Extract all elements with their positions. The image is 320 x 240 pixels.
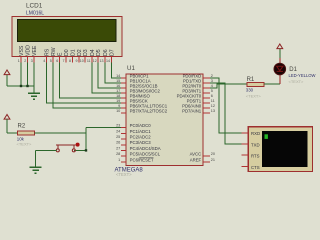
svg-text:28: 28 — [116, 152, 120, 156]
svg-text:VSS: VSS — [19, 45, 25, 56]
virtual terminal body — [248, 127, 312, 172]
wire power rail horizontal — [7, 85, 34, 87]
svg-text:21: 21 — [211, 158, 215, 162]
wire R1 to LED — [264, 83, 280, 85]
svg-text:U1: U1 — [127, 65, 135, 72]
svg-text:9: 9 — [76, 59, 78, 63]
svg-text:D1: D1 — [70, 49, 76, 56]
MCU pin 21 AREF (right) — [203, 161, 210, 163]
svg-text:PC4/ADC4/SDA: PC4/ADC4/SDA — [130, 146, 161, 151]
terminal pin CTS — [242, 165, 249, 167]
svg-text:12: 12 — [211, 104, 215, 108]
svg-text:1: 1 — [18, 59, 20, 63]
wire D4 to PB3 pin17 — [92, 63, 121, 94]
MCU pin 12 PD6/AIN0 (right) — [203, 107, 210, 109]
svg-text:6: 6 — [211, 94, 213, 98]
MCU pin 14 PB0/ICP1 (left) — [121, 77, 126, 79]
wire PD0 to terminal RXD — [210, 78, 242, 133]
power terminal above LED — [277, 44, 283, 49]
svg-text:6: 6 — [56, 59, 58, 63]
MCU pin 24 PC1/ADC1 (left) — [121, 132, 126, 134]
MCU pin 19 PB5/SCK (left) — [121, 102, 126, 104]
svg-text:VDD: VDD — [26, 45, 32, 56]
LED D1 — [279, 58, 281, 84]
svg-text:3: 3 — [31, 59, 33, 63]
svg-text:25: 25 — [116, 135, 120, 139]
svg-text:9: 9 — [118, 104, 120, 108]
junction at VSS — [20, 85, 22, 87]
svg-text:4: 4 — [211, 84, 213, 88]
svg-text:PC0/ADC0: PC0/ADC0 — [130, 123, 152, 128]
MCU pin 15 PB1/OC1A (left) — [121, 82, 126, 84]
MCU pin 18 PB4/MISO (left) — [121, 97, 126, 99]
svg-text:15: 15 — [116, 79, 120, 83]
MCU pin 4 PD2/INT0 (right) — [203, 87, 210, 89]
svg-text:RXD: RXD — [251, 131, 260, 136]
svg-text:RTS: RTS — [251, 154, 260, 159]
wire D7 to PB0 pin14 — [111, 63, 121, 79]
svg-text:TXD: TXD — [251, 142, 260, 147]
svg-text:11: 11 — [211, 99, 215, 103]
svg-text:<TEXT>: <TEXT> — [289, 79, 305, 84]
svg-text:330: 330 — [246, 88, 254, 93]
MCU pin 9 PB6/XTAL1/TOSC1 (left) — [121, 107, 126, 109]
wire vertical button net — [85, 128, 87, 151]
svg-text:PC6/RESET: PC6/RESET — [130, 157, 154, 162]
power terminal near LCD — [4, 70, 10, 75]
svg-text:RW: RW — [51, 47, 57, 56]
LCD screen — [17, 19, 116, 41]
svg-text:LED-YELLOW: LED-YELLOW — [289, 73, 316, 78]
wire to ground — [33, 86, 35, 93]
MCU pin 3 PD1/TXD (right) — [203, 82, 210, 84]
svg-text:10k: 10k — [17, 136, 25, 141]
svg-text:E: E — [58, 52, 64, 56]
svg-text:20: 20 — [211, 152, 215, 156]
resistor R2 body — [18, 131, 35, 135]
svg-text:10: 10 — [116, 109, 120, 113]
svg-text:RS: RS — [45, 48, 51, 56]
svg-text:PC2/ADC2: PC2/ADC2 — [130, 135, 152, 140]
MCU pin 27 PC4/ADC4/SDA (left) — [121, 150, 126, 152]
MCU pin 25 PC2/ADC2 (left) — [121, 138, 126, 140]
svg-text:R2: R2 — [18, 123, 26, 129]
svg-text:26: 26 — [116, 141, 120, 145]
svg-text:13: 13 — [211, 109, 215, 113]
wire VEE down — [33, 63, 35, 87]
MCU pin 17 PB3/MOSI/OC2 (left) — [121, 92, 126, 94]
svg-text:7: 7 — [63, 59, 65, 63]
svg-text:2: 2 — [24, 59, 26, 63]
svg-text:19: 19 — [116, 99, 120, 103]
svg-text:5: 5 — [211, 89, 213, 93]
svg-text:10: 10 — [80, 59, 84, 63]
terminal pin RTS — [242, 154, 249, 156]
svg-text:CTS: CTS — [251, 165, 260, 170]
junction button net — [85, 149, 87, 151]
svg-text:D4: D4 — [90, 49, 96, 56]
wire D5 to PB2 pin16 — [98, 63, 121, 89]
svg-text:3: 3 — [211, 79, 213, 83]
wire VSS down — [20, 63, 22, 87]
ground below LCD — [28, 92, 40, 94]
svg-text:D1: D1 — [289, 67, 297, 73]
svg-text:11: 11 — [87, 59, 91, 63]
svg-text:<TEXT>: <TEXT> — [116, 172, 132, 177]
svg-text:AREF: AREF — [190, 157, 202, 162]
svg-text:1: 1 — [118, 158, 120, 162]
wire button left to ground — [36, 149, 57, 151]
push button — [56, 144, 76, 146]
wire button to net — [74, 149, 86, 151]
MCU pin 16 PB2/SS/OC1B (left) — [121, 87, 126, 89]
MCU pin 5 PD3/INT1 (right) — [203, 92, 210, 94]
svg-text:D6: D6 — [103, 49, 109, 56]
svg-text:23: 23 — [116, 124, 120, 128]
wire to R2 left — [7, 132, 18, 134]
svg-text:16: 16 — [116, 84, 120, 88]
MCU pin 23 PC0/ADC0 (left) — [121, 127, 126, 129]
MCU pin 1 PC6/RESET (left) — [121, 161, 126, 163]
svg-text:PC3/ADC3: PC3/ADC3 — [130, 140, 152, 145]
svg-text:AVCC: AVCC — [190, 152, 202, 157]
svg-text:2: 2 — [211, 74, 213, 78]
MCU pin 10 PB7/XTAL2/TOSC2 (left) — [121, 112, 126, 114]
power terminal near R2 — [4, 115, 10, 120]
ground below button — [30, 166, 42, 168]
svg-text:LM016L: LM016L — [26, 10, 44, 16]
svg-text:PC1/ADC1: PC1/ADC1 — [130, 129, 152, 134]
svg-text:14: 14 — [116, 74, 120, 78]
svg-text:17: 17 — [116, 89, 120, 93]
terminal pin TXD — [242, 143, 249, 145]
wire power arrow stem — [6, 75, 8, 86]
MCU U1 body — [126, 74, 203, 166]
svg-text:D5: D5 — [96, 49, 102, 56]
junction at VDD — [26, 85, 28, 87]
wire to MCU PC0 pin 23 — [86, 127, 121, 129]
svg-text:PB7/XTAL2/TOSC2: PB7/XTAL2/TOSC2 — [130, 109, 168, 114]
wire VDD down — [27, 63, 29, 87]
wire R2 right to net — [34, 132, 86, 134]
svg-text:LCD1: LCD1 — [26, 3, 43, 10]
wire PD1 to terminal TXD — [210, 83, 242, 144]
svg-text:24: 24 — [116, 129, 120, 133]
svg-text:D7: D7 — [109, 49, 115, 56]
svg-text:PD7/AIN1: PD7/AIN1 — [182, 109, 202, 114]
svg-text:<TEXT>: <TEXT> — [246, 93, 262, 98]
wire RW to PB6 pin9 — [53, 63, 121, 109]
wire D6 to PB1 pin15 — [105, 63, 121, 84]
svg-text:8: 8 — [69, 59, 71, 63]
wire PD2 to R1 — [210, 84, 247, 88]
MCU pin 28 PC5/ADC5/SCL (left) — [121, 155, 126, 157]
svg-text:PC5/ADC5/SCL: PC5/ADC5/SCL — [130, 152, 161, 157]
MCU pin 20 AVCC (right) — [203, 155, 210, 157]
virtual terminal screen — [262, 131, 308, 167]
resistor R1 body — [247, 82, 264, 86]
terminal pin RXD — [242, 132, 249, 134]
svg-text:12: 12 — [93, 59, 97, 63]
svg-text:13: 13 — [100, 59, 104, 63]
svg-text:4: 4 — [43, 59, 45, 63]
MCU pin 26 PC3/ADC3 (left) — [121, 144, 126, 146]
svg-text:D2: D2 — [77, 49, 83, 56]
wire down to ground — [35, 150, 37, 167]
wire LED anode to power — [279, 49, 281, 58]
MCU pin 11 PD5/T1 (right) — [203, 102, 210, 104]
MCU pin 2 PD0/RXD (right) — [203, 77, 210, 79]
svg-text:18: 18 — [116, 94, 120, 98]
wire arrow to R2 row — [6, 119, 8, 133]
svg-text:VEE: VEE — [32, 45, 38, 56]
MCU pin 6 PD4/XCK/T0 (right) — [203, 97, 210, 99]
svg-text:27: 27 — [116, 146, 120, 150]
MCU pin 13 PD7/AIN1 (right) — [203, 112, 210, 114]
svg-text:14: 14 — [106, 59, 110, 63]
LCD LCD1 body — [12, 17, 122, 57]
svg-text:<TEXT>: <TEXT> — [17, 142, 33, 147]
svg-text:D3: D3 — [83, 49, 89, 56]
wire RS to PB5 pin19 — [47, 63, 122, 104]
svg-text:5: 5 — [50, 59, 52, 63]
svg-text:D0: D0 — [64, 49, 70, 56]
wire E to PB4 pin18 — [60, 63, 122, 99]
